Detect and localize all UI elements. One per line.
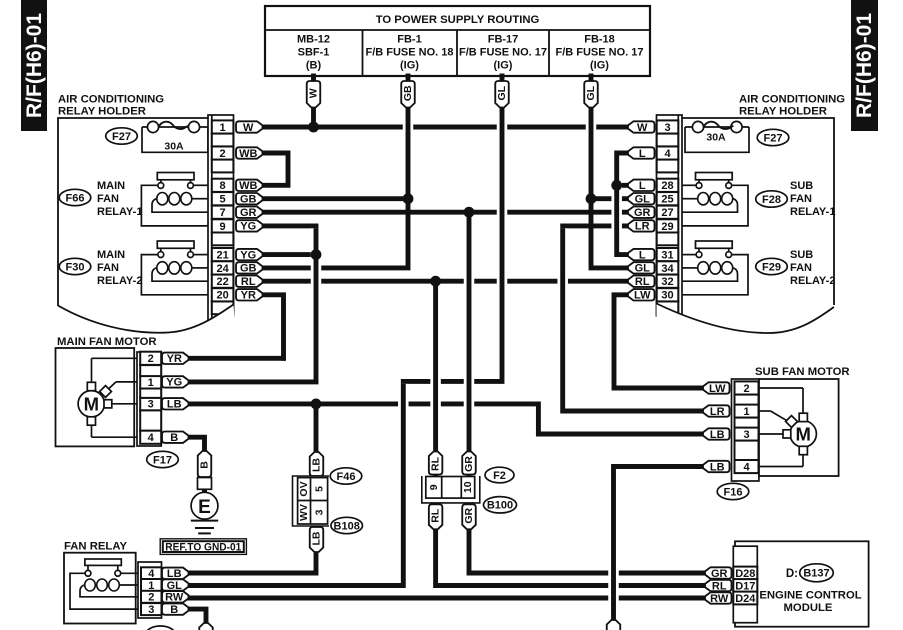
svg-text:FB-17: FB-17: [488, 34, 519, 46]
svg-text:8: 8: [220, 180, 226, 192]
junction GB: [403, 193, 414, 204]
svg-text:GB: GB: [240, 263, 257, 275]
svg-text:3: 3: [743, 429, 749, 441]
svg-text:30A: 30A: [706, 132, 726, 144]
svg-text:FAN RELAY: FAN RELAY: [64, 541, 127, 553]
svg-text:3: 3: [664, 122, 670, 134]
svg-text:YR: YR: [241, 290, 256, 302]
svg-text:3: 3: [148, 604, 154, 616]
svg-text:32: 32: [661, 276, 673, 288]
pin 1 YG main fan motor: [140, 375, 161, 388]
svg-text:(IG): (IG): [400, 60, 419, 72]
svg-text:3: 3: [313, 509, 325, 515]
wire LB offpage vertical (halo): [608, 469, 619, 620]
svg-text:24: 24: [216, 263, 229, 275]
junction GR: [464, 207, 475, 218]
svg-text:L: L: [639, 249, 646, 261]
left holder torn edge: [58, 305, 236, 343]
relay F28 SUB FAN RELAY-1: [756, 191, 788, 207]
svg-text:W: W: [637, 122, 648, 134]
svg-text:RL: RL: [241, 276, 256, 288]
wire GB drop from power box: [406, 76, 411, 199]
ENGINE CONTROL MODULE box: [735, 541, 869, 626]
relay F30 MAIN FAN RELAY-2: [59, 258, 91, 274]
svg-text:ENGINE CONTROL: ENGINE CONTROL: [759, 590, 861, 602]
wire WB loop pin2-pin8: [264, 153, 288, 185]
svg-text:GR: GR: [240, 207, 257, 219]
motor M left: [92, 357, 138, 359]
connector B108 / F46: [310, 452, 324, 476]
wire GR to ECM D28: [469, 212, 702, 573]
svg-text:YG: YG: [240, 249, 256, 261]
wire B fan relay pin3 to offpage: [189, 609, 206, 623]
connector oval cut at bottom: [146, 626, 175, 630]
svg-text:SUB: SUB: [790, 180, 813, 192]
junction L: [611, 180, 622, 191]
svg-text:34: 34: [661, 263, 674, 275]
wire LB sub motor pin4 to offpage: [614, 467, 702, 621]
svg-text:GR: GR: [711, 568, 728, 580]
svg-text:GR: GR: [463, 508, 475, 524]
svg-text:GL: GL: [635, 194, 651, 206]
svg-text:W: W: [243, 122, 254, 134]
svg-text:GL: GL: [635, 263, 651, 275]
svg-text:F30: F30: [66, 261, 85, 273]
svg-text:GR: GR: [463, 456, 475, 472]
svg-text:RELAY-1: RELAY-1: [790, 206, 835, 218]
pin D17 RL ECM: [733, 579, 757, 592]
svg-text:SBF-1: SBF-1: [298, 47, 330, 59]
fuse F27 left 30A: [142, 127, 208, 152]
svg-text:AIR CONDITIONING: AIR CONDITIONING: [739, 94, 845, 106]
svg-text:MAIN: MAIN: [97, 180, 125, 192]
svg-text:RL: RL: [712, 580, 727, 592]
wire GB vertical (halo): [403, 110, 414, 196]
connector F17: [147, 451, 179, 467]
wire GL lower vertical (halo): [398, 384, 409, 583]
svg-text:F2: F2: [493, 470, 506, 482]
joint square: [198, 478, 212, 490]
svg-text:2: 2: [148, 592, 154, 604]
svg-text:7: 7: [220, 207, 226, 219]
wire GL FB-17 vertical (halo): [497, 110, 508, 379]
svg-text:AIR CONDITIONING: AIR CONDITIONING: [58, 94, 164, 106]
svg-text:F66: F66: [66, 192, 85, 204]
svg-text:2: 2: [743, 383, 749, 395]
svg-text:3: 3: [148, 399, 154, 411]
pin 22 RL left holder: [212, 275, 234, 288]
wire B motor pin4 to ground: [189, 437, 205, 452]
svg-text:WB: WB: [239, 180, 257, 192]
svg-text:F28: F28: [762, 194, 781, 206]
svg-text:(IG): (IG): [494, 60, 513, 72]
pin 29 LR right holder: [657, 219, 679, 232]
wire LB fan relay to B108: [189, 404, 316, 573]
svg-text:GL: GL: [585, 85, 597, 100]
svg-text:4: 4: [148, 432, 155, 444]
svg-text:D24: D24: [735, 593, 756, 605]
pin 9 YG left holder: [212, 219, 234, 232]
offpage capsule B bottom: [199, 623, 213, 630]
svg-text:GR: GR: [634, 207, 651, 219]
junction LB: [311, 399, 322, 410]
right holder torn edge: [657, 304, 835, 349]
svg-text:LB: LB: [710, 429, 725, 441]
svg-text:5: 5: [313, 486, 325, 492]
pin 34 GL right holder: [657, 261, 679, 274]
svg-text:(IG): (IG): [590, 60, 609, 72]
power supply routing box: [265, 6, 650, 76]
svg-text:LR: LR: [710, 406, 725, 418]
svg-text:25: 25: [661, 194, 673, 206]
pin 1 W left holder: [212, 120, 234, 133]
svg-text:B137: B137: [803, 568, 829, 580]
svg-text:30: 30: [661, 290, 673, 302]
wire GL pin25 stub: [591, 196, 628, 201]
ground E symbol: [191, 492, 218, 519]
svg-text:GL: GL: [496, 85, 508, 100]
svg-text:2: 2: [220, 148, 226, 160]
wire LR vertical (halo): [557, 228, 568, 408]
pin 3 B fan relay: [141, 603, 162, 615]
pin 27 GR right holder: [657, 206, 679, 219]
svg-text:LR: LR: [635, 221, 650, 233]
relay F66 MAIN FAN RELAY-1: [59, 189, 91, 205]
left page tab R/F(H6)-01: [21, 0, 47, 131]
svg-text:L: L: [639, 180, 646, 192]
pin D28 GR ECM: [733, 567, 757, 580]
svg-text:WB: WB: [239, 148, 257, 160]
svg-text:FAN: FAN: [97, 193, 119, 205]
svg-text:RL: RL: [635, 276, 650, 288]
svg-text:F16: F16: [724, 486, 743, 498]
wire YR pin20: [264, 295, 284, 359]
wire RL run pin22 to pin32: [264, 279, 628, 284]
connector capsule W: [307, 81, 321, 108]
svg-text:5: 5: [220, 194, 226, 206]
wire L vertical (halo): [611, 156, 622, 253]
svg-text:B100: B100: [487, 500, 513, 512]
svg-text:RELAY HOLDER: RELAY HOLDER: [739, 106, 827, 118]
wire L pin28 stub: [617, 183, 628, 188]
svg-text:1: 1: [148, 377, 154, 389]
svg-text:LB: LB: [311, 458, 323, 472]
wire GL FB-18 vertical (halo): [586, 110, 597, 196]
main fan motor pin strip: [137, 352, 161, 446]
pin 31 L right holder: [657, 248, 679, 261]
svg-text:RL: RL: [430, 456, 442, 471]
svg-text:27: 27: [661, 207, 673, 219]
svg-text:29: 29: [661, 221, 673, 233]
connector capsule B to ground: [198, 451, 212, 477]
pin 7 GR left holder: [212, 206, 234, 219]
wire YR motor run: [189, 356, 284, 361]
fan relay pin strip: [138, 562, 162, 618]
svg-text:L: L: [639, 148, 646, 160]
svg-text:FAN: FAN: [97, 262, 119, 274]
svg-text:MAIN FAN MOTOR: MAIN FAN MOTOR: [57, 336, 157, 348]
svg-text:MODULE: MODULE: [784, 602, 833, 614]
svg-text:FAN: FAN: [790, 262, 812, 274]
svg-text:F/B FUSE NO. 17: F/B FUSE NO. 17: [459, 47, 547, 59]
wire GB pin24: [264, 199, 408, 268]
wire YG pin21: [264, 252, 316, 257]
svg-text:FB-18: FB-18: [584, 34, 615, 46]
svg-text:LB: LB: [167, 399, 182, 411]
svg-text:4: 4: [743, 461, 750, 473]
pin 3 W right holder: [657, 120, 679, 133]
svg-text:1: 1: [743, 406, 749, 418]
junction GL: [586, 193, 597, 204]
svg-text:B108: B108: [334, 520, 360, 532]
junction W: [308, 122, 319, 133]
wire LB-B108 vertical (halo): [311, 406, 322, 570]
pin 1 GL fan relay: [141, 579, 162, 591]
svg-text:F29: F29: [762, 261, 781, 273]
svg-text:RW: RW: [710, 593, 729, 605]
svg-text:20: 20: [216, 290, 228, 302]
svg-text:D:: D:: [786, 568, 798, 580]
pin 2 YR main fan motor: [140, 352, 161, 365]
pin 4 B main fan motor: [140, 431, 161, 444]
wire LW pin30 to sub motor pin2: [614, 295, 701, 388]
pin 30 LW right holder: [657, 288, 679, 301]
pin 1 LR sub fan motor: [735, 404, 759, 417]
pin 4 L right holder: [657, 146, 679, 159]
wire W run (pin1 to pin3): [264, 125, 628, 130]
svg-text:RELAY-2: RELAY-2: [97, 275, 142, 287]
svg-text:YR: YR: [167, 353, 182, 365]
svg-text:E: E: [198, 497, 211, 518]
pin 2 RW fan relay: [141, 591, 162, 603]
svg-text:B: B: [170, 604, 178, 616]
wire GR run pin7 to pin27: [264, 210, 628, 215]
pin 32 RL right holder: [657, 275, 679, 288]
svg-text:F27: F27: [112, 131, 131, 143]
svg-text:21: 21: [216, 250, 228, 262]
svg-text:RELAY-1: RELAY-1: [97, 206, 142, 218]
wire GB pin5 run: [264, 196, 408, 201]
svg-text:F/B FUSE NO. 17: F/B FUSE NO. 17: [555, 47, 643, 59]
svg-text:28: 28: [661, 180, 673, 192]
svg-text:OV: OV: [298, 481, 310, 496]
connector capsule GL: [495, 81, 509, 108]
svg-text:9: 9: [428, 484, 440, 490]
svg-text:GB: GB: [240, 194, 257, 206]
svg-text:4: 4: [664, 148, 671, 160]
svg-text:31: 31: [661, 250, 673, 262]
pin 2 WB left holder: [212, 146, 234, 159]
pin 5 GB left holder: [212, 192, 234, 205]
svg-text:(B): (B): [306, 60, 322, 72]
wire LR pin29 to sub motor pin1: [563, 226, 701, 411]
junction YG: [311, 249, 322, 260]
svg-text:30A: 30A: [164, 141, 184, 153]
connector B100 / F2: [429, 452, 443, 475]
svg-text:1: 1: [220, 122, 226, 134]
connector F16: [717, 483, 749, 499]
svg-text:LB: LB: [710, 461, 725, 473]
svg-text:RELAY HOLDER: RELAY HOLDER: [58, 106, 146, 118]
svg-text:SUB: SUB: [790, 249, 813, 261]
svg-text:2: 2: [148, 353, 154, 365]
svg-text:R/F(H6)-01: R/F(H6)-01: [853, 13, 876, 118]
svg-text:GB: GB: [402, 85, 414, 101]
svg-text:YG: YG: [166, 377, 182, 389]
connector B137: [800, 564, 834, 582]
pin 8 WB left holder: [212, 179, 234, 192]
svg-text:W: W: [308, 88, 320, 98]
svg-text:F27: F27: [764, 132, 783, 144]
svg-text:M: M: [795, 424, 810, 445]
wire LB main run motor3 to sub motor3: [189, 404, 701, 434]
pin 25 GL right holder: [657, 192, 679, 205]
pin 21 YG left holder: [212, 248, 234, 261]
svg-text:RELAY-2: RELAY-2: [790, 275, 835, 287]
offpage capsule LB bottom: [607, 620, 621, 630]
svg-text:LB: LB: [167, 568, 182, 580]
svg-text:F/B FUSE NO. 18: F/B FUSE NO. 18: [365, 47, 453, 59]
svg-text:TO POWER SUPPLY ROUTING: TO POWER SUPPLY ROUTING: [376, 14, 540, 26]
svg-text:LW: LW: [634, 290, 651, 302]
relay F29 SUB FAN RELAY-2: [756, 258, 788, 274]
wire GL FB-18 drop to pins 25/34: [591, 76, 628, 268]
svg-text:FAN: FAN: [790, 193, 812, 205]
svg-text:R/F(H6)-01: R/F(H6)-01: [23, 13, 46, 118]
svg-text:M: M: [84, 394, 99, 415]
pin 20 YR left holder: [212, 288, 234, 301]
pin 24 GB left holder: [212, 261, 234, 274]
svg-text:B: B: [199, 461, 211, 469]
wire YG vertical (halo): [311, 228, 322, 379]
svg-text:GL: GL: [167, 580, 183, 592]
pin 3 LB sub fan motor: [735, 427, 759, 440]
wire YG motor run: [189, 379, 316, 384]
sub fan motor pin strip: [732, 379, 759, 481]
connector capsule GB: [401, 81, 415, 108]
pin 4 LB sub fan motor: [735, 460, 759, 473]
svg-text:22: 22: [216, 276, 228, 288]
svg-text:F46: F46: [337, 471, 356, 483]
wire GL FB-17 drop jog to fan relay: [189, 76, 502, 586]
wire RW fan relay to ECM D24: [189, 596, 702, 601]
svg-text:MAIN: MAIN: [97, 249, 125, 261]
svg-text:YG: YG: [240, 221, 256, 233]
svg-text:B: B: [170, 432, 178, 444]
svg-text:RW: RW: [165, 592, 184, 604]
fuse F27 right 30A: [685, 127, 749, 152]
svg-text:9: 9: [220, 221, 226, 233]
connector capsule GL2: [584, 81, 598, 108]
wire GR vertical (halo): [464, 215, 475, 571]
pin D24 RW ECM: [733, 592, 757, 605]
left pin strip: [208, 115, 234, 330]
svg-text:LB: LB: [311, 531, 323, 545]
pin 2 LW sub fan motor: [735, 381, 759, 394]
svg-text:WV: WV: [298, 504, 310, 521]
svg-text:F17: F17: [153, 454, 172, 466]
svg-text:MB-12: MB-12: [297, 34, 330, 46]
junction RL: [430, 276, 441, 287]
right pin strip: [657, 115, 683, 316]
svg-text:RL: RL: [430, 508, 442, 523]
svg-text:FB-1: FB-1: [397, 34, 421, 46]
right page tab R/F(H6)-01: [851, 0, 878, 131]
REF. TO GND-01 box: [160, 539, 246, 555]
wire W drop from power box: [311, 76, 316, 127]
wire YG pin9: [264, 226, 316, 255]
svg-text:10: 10: [462, 481, 474, 493]
motor M right: [759, 387, 803, 389]
pin 4 LB fan relay: [141, 567, 162, 579]
pin 3 LB main fan motor: [140, 397, 161, 410]
wire RL vertical (halo): [430, 284, 441, 583]
svg-text:SUB FAN MOTOR: SUB FAN MOTOR: [755, 366, 850, 378]
svg-text:REF.TO GND-01: REF.TO GND-01: [165, 541, 241, 553]
svg-text:LW: LW: [709, 383, 726, 395]
pin 28 L right holder: [657, 179, 679, 192]
wire L pin4 to pins 28/31: [617, 153, 628, 255]
wire RL to ECM D17: [436, 281, 702, 585]
